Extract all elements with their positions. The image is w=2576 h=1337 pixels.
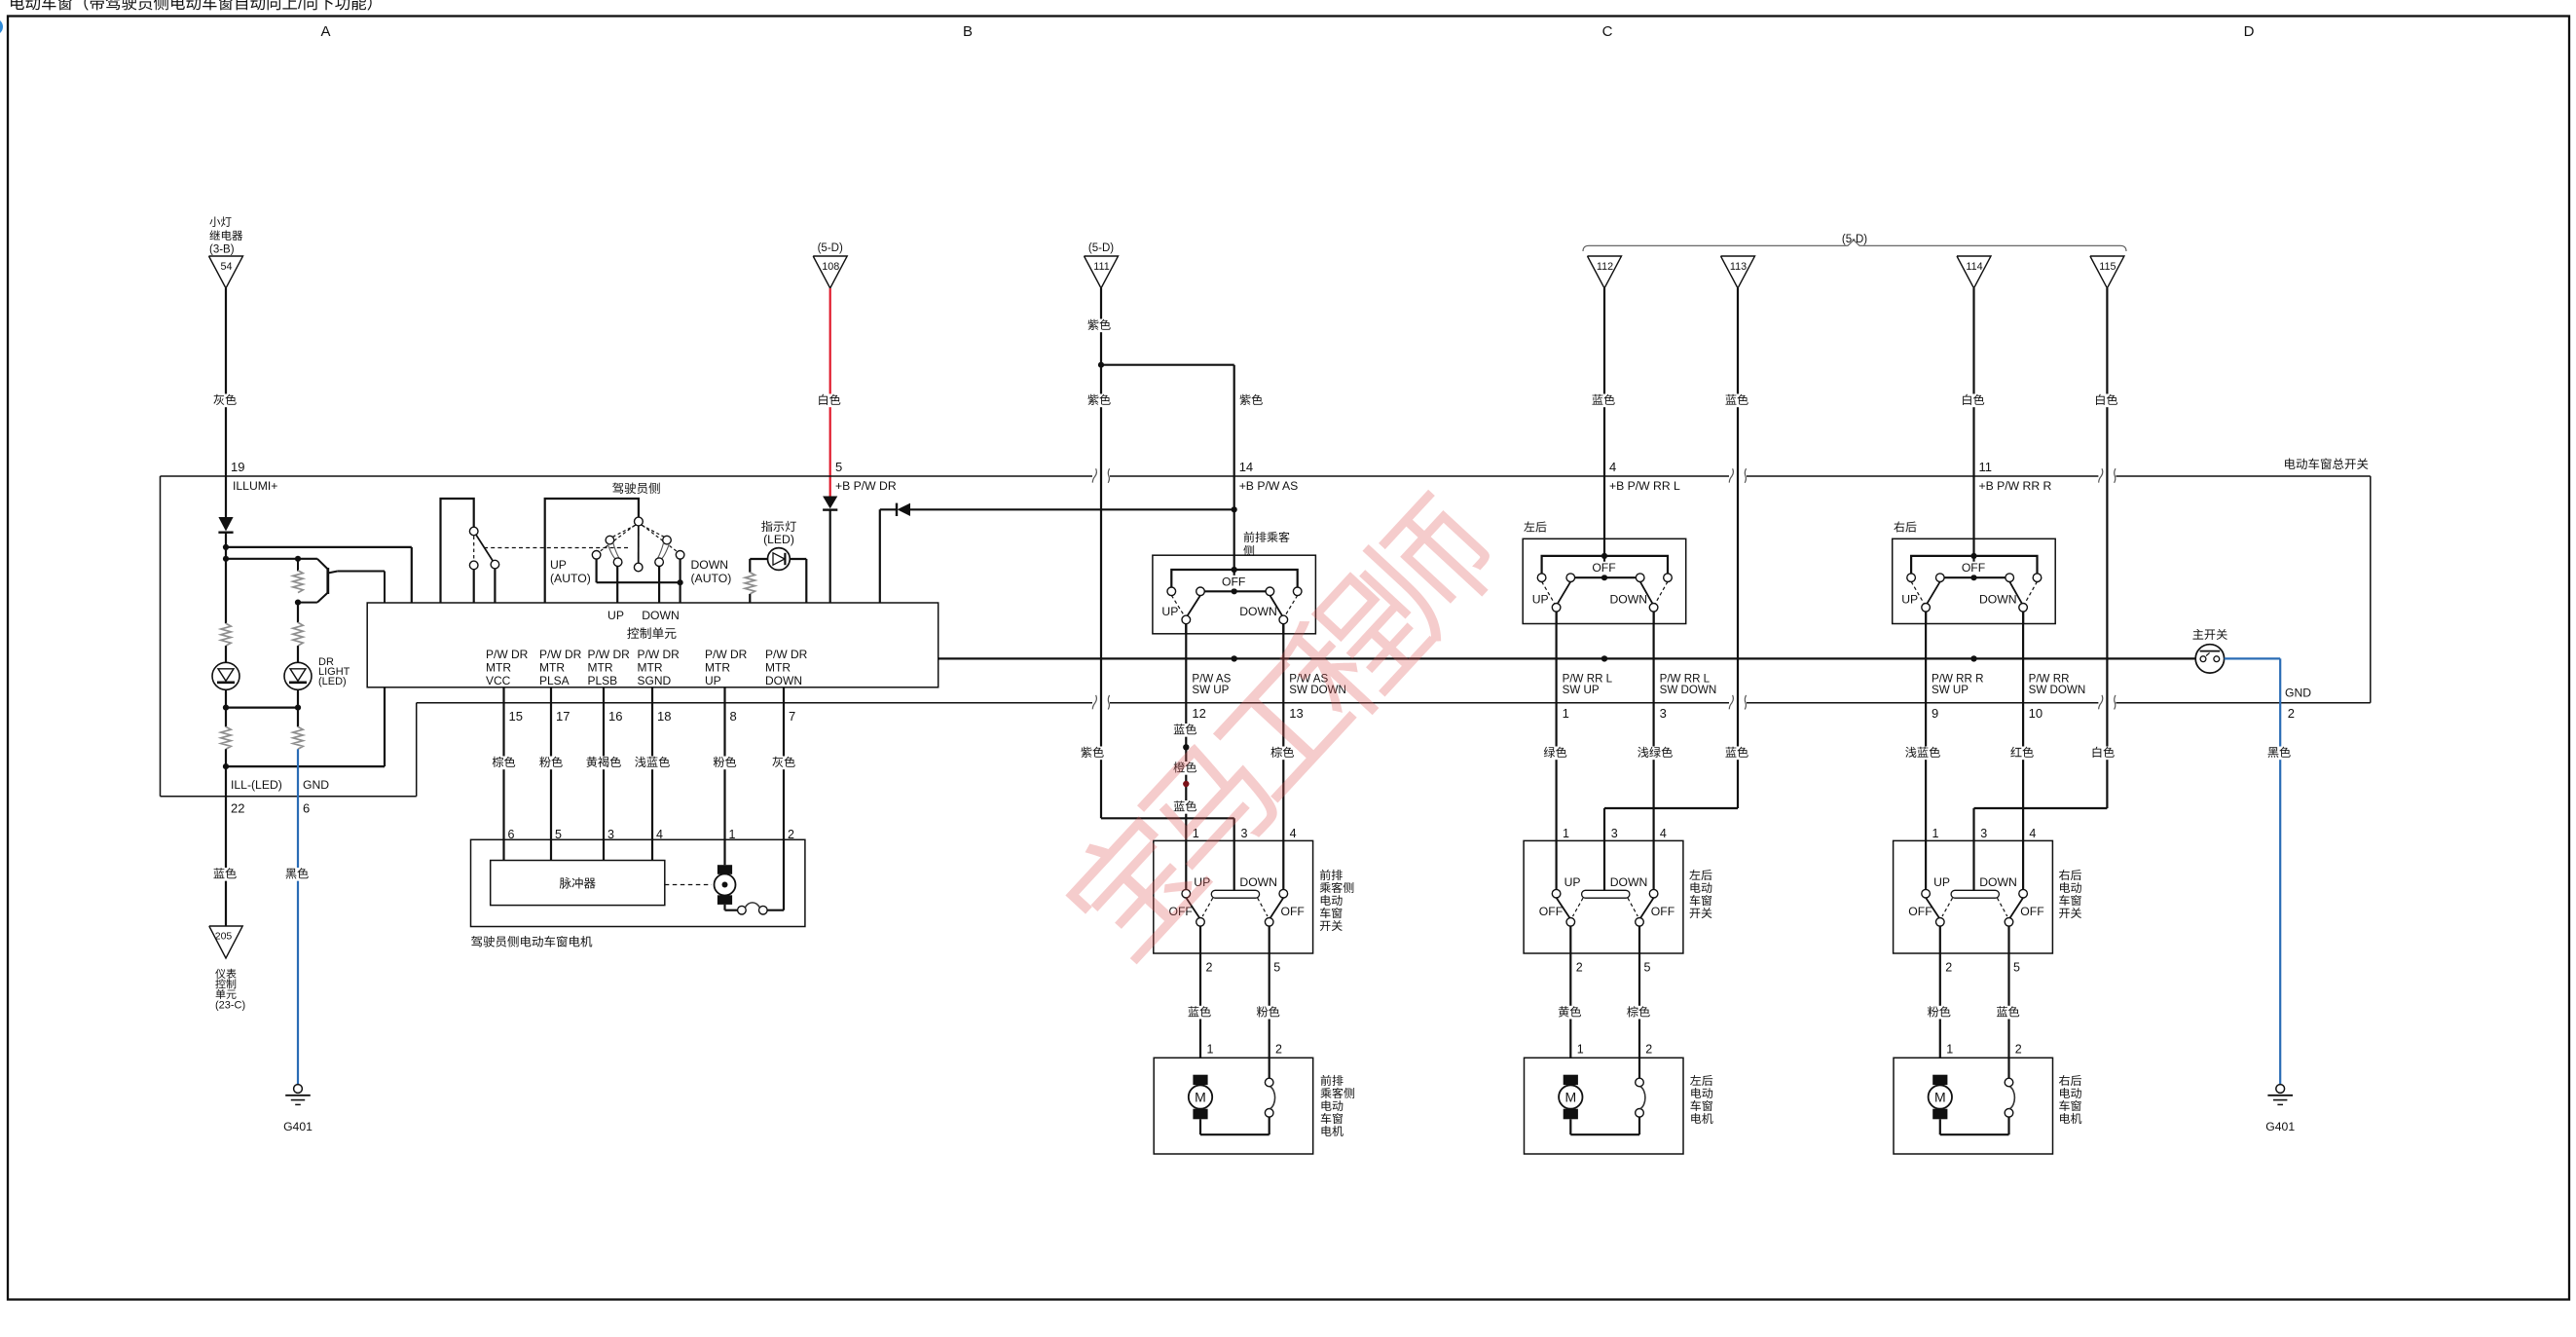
wire 黑色 pin6 to G401 [283,749,311,1084]
label 驾驶员侧 [612,482,661,496]
svg-text:DOWN: DOWN [1610,875,1648,889]
svg-text:B: B [963,23,973,40]
svg-text:SW UP: SW UP [1563,684,1600,696]
svg-text:4: 4 [2029,827,2036,840]
svg-text:54: 54 [220,261,232,273]
pin 5 +B P/W DR [835,460,897,493]
svg-text:蓝色: 蓝色 [1592,393,1615,407]
svg-text:开关: 开关 [1689,907,1712,920]
svg-text:P/W DR: P/W DR [539,648,582,661]
column label C [1602,23,1613,40]
connector 113 [1721,256,1755,288]
title 电动车窗 [9,0,383,13]
svg-text:电动: 电动 [1690,1087,1713,1100]
wire passenger motor 1 蓝色 [1186,1005,1213,1019]
svg-text:右后: 右后 [1894,521,1917,535]
svg-text:15: 15 [509,709,523,724]
svg-text:右后: 右后 [2059,1074,2082,1088]
wire pin14 to passenger switch [1233,476,1235,555]
svg-text:车窗: 车窗 [1689,894,1712,908]
svg-text:SW UP: SW UP [1932,684,1969,696]
svg-text:乘客侧: 乘客侧 [1320,1087,1355,1100]
wire control unit pin 15 棕色 [490,687,523,861]
wire control unit pin 16 黄褐色 [584,687,624,861]
svg-text:8: 8 [730,709,737,724]
svg-text:左后: 左后 [1689,869,1712,882]
svg-text:DOWN: DOWN [1610,592,1648,606]
wire 蓝色 pin22 to connector205 [211,766,239,926]
svg-text:前排: 前排 [1320,1074,1343,1088]
svg-text:108: 108 [822,261,839,273]
svg-text:(3-B): (3-B) [209,244,235,256]
svg-text:5: 5 [1273,961,1280,975]
svg-text:UP: UP [1532,592,1549,606]
svg-text:OFF: OFF [1962,561,1985,575]
node LED cathode rail [223,705,301,711]
svg-text:车窗: 车窗 [1690,1099,1713,1113]
connector 111 (5-D) [1085,242,1119,288]
diode D2 +B P/W DR [823,497,837,604]
wire passenger motor 2 粉色 [1255,1005,1282,1019]
watermark 宝马工程师 [1041,479,1525,985]
svg-text:MTR: MTR [486,661,511,675]
wire RR motor 2 蓝色 [1994,1005,2021,1019]
pin 14 +B P/W AS [1239,460,1299,493]
svg-text:白色: 白色 [2094,393,2117,407]
svg-text:电机: 电机 [1320,1125,1343,1138]
svg-text:蓝色: 蓝色 [1725,393,1748,407]
svg-text:205: 205 [215,931,233,943]
svg-text:2: 2 [1576,961,1583,975]
resistor R3 [293,603,303,647]
LED1 illumination [212,646,239,708]
svg-text:D: D [2244,23,2255,40]
svg-text:主开关: 主开关 [2192,628,2228,642]
control unit 控制单元 box [367,603,938,687]
svg-text:MTR: MTR [705,661,730,675]
label 左后 [1524,521,1547,535]
svg-text:黑色: 黑色 [285,868,309,881]
resistor R1 [221,623,231,646]
svg-text:112: 112 [1597,261,1613,273]
connector 115 [2090,256,2124,288]
svg-text:小灯: 小灯 [209,216,232,229]
svg-text:继电器: 继电器 [209,230,243,242]
master switch box 电动车窗总开关 [161,458,2371,797]
svg-text:10: 10 [2029,706,2042,721]
label UP (AUTO) [550,558,591,585]
wire LR motor 2 棕色 [1625,1005,1652,1019]
svg-text:4: 4 [1660,827,1667,840]
driver switch feed wire [545,499,639,603]
svg-text:开关: 开关 [1319,919,1343,933]
svg-text:DOWN: DOWN [765,674,802,687]
svg-text:17: 17 [556,709,570,724]
svg-text:电动: 电动 [2059,881,2082,895]
svg-text:M: M [1195,1089,1206,1104]
svg-text:2: 2 [1275,1043,1282,1057]
passenger window motor 前排乘客侧电动车窗电机 [1154,1058,1355,1154]
svg-text:指示灯: 指示灯 [761,520,797,534]
right rear door switch 右后电动车窗开关 [1894,827,2082,1058]
svg-text:+B P/W RR R: +B P/W RR R [1979,479,2052,493]
ILL switch feed wire [441,499,474,603]
pin labels P/W RR R SW UP [1932,673,1983,721]
svg-text:PLSA: PLSA [539,674,570,687]
pin 4 +B P/W RR L [1609,460,1680,493]
svg-text:(5-D): (5-D) [1842,234,1867,245]
svg-text:1: 1 [1932,827,1939,840]
driver switch pivot [634,517,643,572]
svg-text:14: 14 [1239,460,1253,474]
transistor Q1 [295,559,385,606]
wire 白色 feed to RR pin3 [1974,746,2117,840]
wire indicator anode [805,559,807,603]
svg-text:2: 2 [2015,1043,2022,1057]
blue edge mark [0,20,2,34]
svg-text:灰色: 灰色 [213,393,237,407]
svg-text:灰色: 灰色 [772,756,795,769]
breaker contacts driver motor [738,903,784,914]
pin 19 ILLUMI+ [231,460,277,493]
wire control unit pin 8 粉色 [711,687,738,865]
svg-text:UP: UP [1901,592,1918,606]
svg-text:5: 5 [835,460,842,474]
svg-text:浅蓝色: 浅蓝色 [635,756,671,769]
svg-text:粉色: 粉色 [1257,1005,1280,1019]
svg-text:+B P/W DR: +B P/W DR [835,479,897,493]
wire control unit pin 17 粉色 [537,687,570,861]
svg-text:OFF: OFF [1539,905,1563,918]
mechanical link dashed [484,547,631,549]
wire 黑色 主开关 to G401 [2225,658,2294,1084]
connector 114 [1957,256,1991,288]
svg-text:紫色: 紫色 [1087,318,1111,332]
svg-text:白色: 白色 [818,393,841,407]
wire 紫色 feed to passenger pin3 [1079,746,1234,840]
svg-text:SW DOWN: SW DOWN [2029,684,2086,696]
svg-text:黄色: 黄色 [1558,1005,1581,1019]
junction diode line to pin14 wire [1232,506,1237,512]
label 右后 [1894,521,1917,535]
wire LR SW DOWN 浅绿色 [1636,612,1675,840]
ground G401 right [2265,1085,2295,1133]
svg-text:+B P/W AS: +B P/W AS [1239,479,1299,493]
svg-text:车窗: 车窗 [2059,894,2082,908]
svg-text:绿色: 绿色 [1543,746,1566,760]
node base rail [223,547,317,623]
svg-text:MTR: MTR [765,661,791,675]
motor M driver [715,865,738,910]
svg-text:(23-C): (23-C) [215,1000,245,1012]
svg-text:4: 4 [1609,460,1616,474]
svg-text:SGND: SGND [638,674,672,687]
svg-text:电动: 电动 [2059,1087,2082,1100]
svg-text:6: 6 [303,801,310,816]
pin labels P/W RR SW DOWN [2029,673,2086,721]
driver switch DOWN contact [655,536,672,603]
resistor R5 [293,708,303,750]
passenger window switch (master) [1153,555,1316,634]
junction rail passenger [1232,655,1237,661]
svg-text:22: 22 [231,801,244,816]
svg-text:OFF: OFF [2020,905,2043,918]
junction 111 branch [1098,362,1104,368]
driver switch UP contact [606,536,622,603]
svg-text:前排乘客: 前排乘客 [1243,531,1290,544]
svg-text:粉色: 粉色 [1928,1005,1951,1019]
svg-text:GND: GND [2285,687,2311,700]
svg-text:UP: UP [1564,875,1581,889]
svg-text:113: 113 [1730,261,1747,273]
svg-text:OFF: OFF [1592,561,1615,575]
svg-text:MTR: MTR [588,661,613,675]
pin labels P/W AS SW UP [1192,673,1231,721]
wire 白色(red) connector108 to pin5 [816,288,843,497]
svg-text:(5-D): (5-D) [1088,242,1114,254]
svg-text:115: 115 [2099,261,2116,273]
svg-text:UP: UP [550,558,567,572]
control unit pin labels [486,648,808,687]
pin 22 ILL-(LED) [231,778,282,816]
label 前排乘客侧 [1243,531,1290,558]
svg-text:ILL-(LED): ILL-(LED) [231,778,282,792]
svg-text:PLSB: PLSB [588,674,618,687]
svg-text:ILLUMI+: ILLUMI+ [233,479,277,493]
wire RR SW DOWN 红色 [2008,612,2036,840]
pin labels P/W RR L SW UP [1563,673,1613,721]
svg-text:9: 9 [1932,706,1938,721]
wire pin11 to right-rear switch [1972,476,1974,539]
svg-text:左后: 左后 [1690,1074,1713,1088]
svg-text:1: 1 [1946,1043,1953,1057]
svg-text:车窗: 车窗 [2059,1099,2082,1113]
svg-text:1: 1 [1577,1043,1584,1057]
svg-text:G401: G401 [283,1120,313,1133]
driver motor box 驾驶员侧电动车窗电机 [471,839,805,948]
svg-text:UP: UP [1933,875,1950,889]
svg-text:M: M [1934,1089,1946,1104]
svg-text:1: 1 [1563,706,1569,721]
svg-text:紫色: 紫色 [1081,746,1104,760]
break marks on box edges [1092,468,2116,709]
wire control rail to 主开关 [938,657,2196,659]
svg-text:5: 5 [1644,961,1651,975]
svg-text:浅绿色: 浅绿色 [1638,746,1674,760]
left rear window switch (master) [1523,539,1686,623]
wire 灰色 connector54 to pin19 [211,288,239,476]
svg-text:电动: 电动 [1320,1099,1343,1113]
svg-text:2: 2 [1945,961,1952,975]
svg-text:UP: UP [705,674,721,687]
svg-text:(5-D): (5-D) [818,242,843,254]
right rear window motor 右后电动车窗电机 [1894,1058,2082,1154]
svg-text:5: 5 [2013,961,2020,975]
wire LR motor 1 黄色 [1556,1005,1583,1019]
svg-text:GND: GND [303,778,329,792]
svg-text:11: 11 [1979,460,1993,474]
ground G401 left [283,1085,313,1133]
pulser 脉冲器 [491,861,712,906]
svg-text:19: 19 [231,460,244,474]
svg-text:车窗: 车窗 [1320,1112,1343,1126]
svg-text:红色: 红色 [2010,746,2034,760]
wire 蓝色 feed to LR pin3 [1604,746,1750,840]
driver switch dashed throws [600,525,677,551]
svg-text:114: 114 [1966,261,1982,273]
svg-text:蓝色: 蓝色 [1188,1005,1211,1019]
svg-text:蓝色: 蓝色 [1725,746,1748,760]
svg-text:+B P/W RR L: +B P/W RR L [1609,479,1680,493]
right rear window switch (master) [1893,539,2056,623]
svg-text:111: 111 [1093,261,1109,273]
column label D [2244,23,2255,40]
wire control unit pin 7 灰色 [770,687,797,910]
svg-text:P/W DR: P/W DR [705,648,748,661]
node ILL- rail [223,687,385,769]
resistor R2 base [293,559,303,593]
svg-text:P/W DR: P/W DR [486,648,529,661]
svg-text:2: 2 [1206,961,1213,975]
svg-text:OFF: OFF [1651,905,1674,918]
svg-text:UP: UP [607,609,624,622]
svg-text:开关: 开关 [2059,907,2082,920]
svg-text:右后: 右后 [2059,869,2082,882]
wire 白色 connector115 down [2092,288,2119,808]
svg-text:16: 16 [608,709,622,724]
bracket (5-D) over connectors 112-115 [1583,234,2126,251]
wire LR SW UP 绿色 [1541,612,1568,840]
wire passenger SW UP 蓝色橙色蓝色 [1171,624,1198,841]
wire 紫色 branch to pin14 [1101,365,1266,476]
svg-text:DOWN: DOWN [1239,605,1277,618]
connector 205 仪表控制单元(23-C) [209,926,245,1012]
pin labels P/W RR L SW DOWN [1660,673,1717,721]
wire 蓝色 connector112 to pin4 [1590,288,1617,476]
splice red passenger [1183,781,1189,787]
wire RR SW UP 浅蓝色 [1903,612,1943,840]
svg-text:G401: G401 [2265,1120,2295,1133]
svg-text:3: 3 [1611,827,1618,840]
resistor R4 [221,708,231,767]
diode D1 on ILLUMI+ wire [218,476,233,547]
svg-text:C: C [1602,23,1613,40]
svg-text:蓝色: 蓝色 [213,868,237,881]
connector 112 [1588,256,1622,288]
svg-text:脉冲器: 脉冲器 [559,877,596,891]
svg-text:(LED): (LED) [318,676,347,687]
main switch 主开关 [2192,628,2228,673]
svg-text:DOWN: DOWN [1979,875,2017,889]
left rear window motor 左后电动车窗电机 [1525,1058,1713,1154]
svg-text:控制单元: 控制单元 [627,626,677,641]
wire 白色 connector114 to pin11 [1959,288,1986,476]
svg-text:蓝色: 蓝色 [1996,1005,2019,1019]
splice black passenger [1183,744,1189,750]
svg-text:车窗: 车窗 [1319,907,1343,920]
svg-text:紫色: 紫色 [1239,393,1263,407]
svg-text:棕色: 棕色 [492,756,515,769]
svg-text:18: 18 [657,709,671,724]
column label A [320,23,330,40]
connector 108 (5-D) [813,242,847,288]
svg-text:P/W DR: P/W DR [638,648,681,661]
svg-text:OFF: OFF [1908,905,1932,918]
wire 蓝色 connector113 down [1723,288,1750,808]
junction rail left-rear [1601,655,1607,661]
svg-text:SW DOWN: SW DOWN [1660,684,1717,696]
wire RR motor 1 粉色 [1926,1005,1953,1019]
svg-text:电动车窗（带驾驶员侧电动车窗自动向上/向下功能）: 电动车窗（带驾驶员侧电动车窗自动向上/向下功能） [9,0,383,13]
svg-text:DOWN: DOWN [642,609,680,622]
svg-text:粉色: 粉色 [539,756,563,769]
wire pin4 to left-rear switch [1603,476,1605,539]
svg-text:2: 2 [2288,706,2295,721]
svg-text:MTR: MTR [638,661,663,675]
svg-text:粉色: 粉色 [713,756,736,769]
pin 6 GND [303,778,329,816]
svg-text:2: 2 [1645,1043,1652,1057]
svg-text:黑色: 黑色 [2267,746,2291,760]
svg-text:DOWN: DOWN [1979,592,2017,606]
svg-text:3: 3 [1980,827,1987,840]
connector 54 小灯继电器(3-B) [209,216,243,288]
svg-text:1: 1 [1563,827,1569,840]
wire passenger SW DOWN 棕色 [1269,624,1296,841]
svg-text:VCC: VCC [486,674,511,687]
svg-text:驾驶员侧: 驾驶员侧 [612,482,661,496]
ILL switch contacts [469,527,498,603]
svg-text:电机: 电机 [2059,1112,2082,1126]
svg-text:白色: 白色 [1961,393,1984,407]
svg-text:MTR: MTR [539,661,565,675]
node ILLUMI rail [223,544,412,603]
LED2 DR LIGHT [284,646,350,708]
svg-text:白色: 白色 [2091,746,2115,760]
svg-text:(AUTO): (AUTO) [691,572,732,585]
svg-text:电动车窗总开关: 电动车窗总开关 [2283,458,2369,471]
svg-text:电动: 电动 [1319,894,1343,908]
svg-text:棕色: 棕色 [1627,1005,1650,1019]
driver switch AUTO contacts rail [592,551,684,604]
svg-text:(LED): (LED) [763,533,794,546]
svg-text:P/W DR: P/W DR [588,648,631,661]
svg-text:前排: 前排 [1319,869,1343,882]
diode D3 to +B P/W AS [880,503,1234,603]
pin labels P/W AS SW DOWN [1289,673,1346,721]
resistor R6 indicator [745,573,754,603]
svg-text:OFF: OFF [1281,905,1305,918]
svg-text:电机: 电机 [1690,1112,1713,1126]
svg-text:7: 7 [789,709,795,724]
svg-text:1: 1 [1207,1043,1214,1057]
svg-text:左后: 左后 [1524,521,1547,535]
junction rail right-rear [1970,655,1976,661]
svg-text:3: 3 [1660,706,1667,721]
indicator 指示灯(LED) [750,520,806,573]
svg-text:OFF: OFF [1222,575,1245,588]
wire control unit pin 18 浅蓝色 [633,687,673,861]
pin 2 GND master switch [2285,687,2311,722]
svg-text:浅蓝色: 浅蓝色 [1905,746,1941,760]
svg-text:黄褐色: 黄褐色 [586,756,622,769]
svg-text:A: A [320,23,330,40]
passenger door switch 前排乘客侧电动车窗开关 [1154,827,1355,1058]
svg-text:P/W DR: P/W DR [765,648,808,661]
svg-text:电动: 电动 [1689,881,1712,895]
column label B [963,23,973,40]
svg-text:紫色: 紫色 [1087,393,1111,407]
